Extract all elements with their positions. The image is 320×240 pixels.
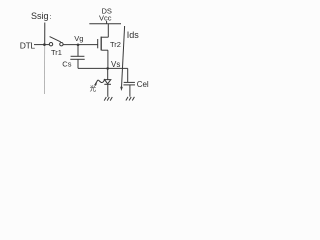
- svg-text:Vcc: Vcc: [99, 14, 112, 23]
- el diode triangle: [105, 80, 111, 84]
- power rail Vcc: [89, 23, 121, 25]
- wire: switch to Tr2 gate: [63, 44, 97, 46]
- ground (left) hatch: [104, 97, 112, 101]
- transistor Tr2 channel bar: [100, 37, 102, 51]
- node: Vs junction dot: [106, 67, 109, 70]
- wire: DTL data line: [34, 44, 49, 46]
- svg-text:Ids: Ids: [127, 30, 140, 40]
- wire: Vg node down to Cs: [77, 45, 79, 56]
- svg-text:Tr1: Tr1: [51, 48, 62, 57]
- wire: Vs source rail (horizontal): [78, 67, 128, 69]
- transistor Tr2 drain stub: [107, 24, 109, 38]
- node: DTL/Ssig junction dot: [43, 43, 46, 46]
- wire: Vs rail corner down to Cel: [127, 68, 129, 82]
- current arrow Ids: [122, 26, 125, 88]
- svg-text:Cel: Cel: [137, 80, 149, 89]
- svg-text:Ssig: Ssig: [31, 11, 49, 21]
- svg-text:Vg: Vg: [74, 34, 83, 43]
- transistor Tr2 source lead: [101, 49, 108, 51]
- capacitor Cs bottom plate: [70, 58, 84, 60]
- svg-text::: :: [50, 14, 52, 21]
- capacitor Cs top plate: [71, 55, 85, 57]
- node: Vg junction dot: [77, 44, 80, 47]
- el diode anode stub: [107, 68, 109, 79]
- light emission arrow (wavy): [95, 79, 105, 84]
- transistor Tr1 switch: arm: [50, 37, 61, 42]
- wire: Ssig scan line (vertical): [44, 23, 46, 47]
- svg-text:Vs: Vs: [111, 60, 120, 69]
- transistor Tr2 source stub: [107, 50, 109, 68]
- ground (right) hatch: [126, 97, 134, 101]
- capacitor Cel bottom plate: [123, 84, 135, 86]
- el diode cathode bar: [104, 83, 111, 85]
- capacitor Cel top plate: [124, 81, 135, 83]
- transistor Tr1 switch: left contact circle: [49, 43, 52, 46]
- wire: diode to ground: [107, 84, 109, 97]
- transistor Tr2 drain lead: [101, 36, 108, 38]
- svg-text:Tr2: Tr2: [110, 40, 121, 49]
- svg-text:DTL: DTL: [20, 40, 36, 50]
- transistor Tr1 switch: right contact circle: [60, 43, 63, 46]
- transistor Tr2 gate bar: [97, 39, 99, 48]
- wire: Vcc label tick: [106, 21, 108, 24]
- svg-text:Cs: Cs: [62, 59, 71, 68]
- wire: Cel to ground: [129, 85, 131, 97]
- wire: Cs down to source rail: [77, 59, 79, 68]
- svg-text:光: 光: [90, 84, 97, 93]
